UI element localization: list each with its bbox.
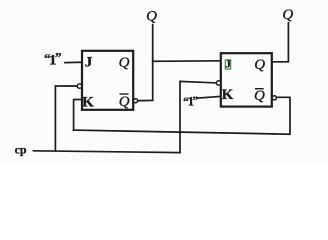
wire cp horizontal xyxy=(34,151,181,153)
svg-text:Q: Q xyxy=(254,57,265,73)
flip-flop U2 body xyxy=(221,53,272,106)
svg-text:J: J xyxy=(85,54,93,70)
svg-text:”: ” xyxy=(55,50,62,65)
svg-text:Q: Q xyxy=(254,88,265,104)
bubble U1 Qbar xyxy=(133,99,137,103)
wire K1 input riser xyxy=(74,100,82,131)
svg-text:cp: cp xyxy=(15,143,27,157)
svg-text:Q: Q xyxy=(146,9,157,25)
wire CP riser to U2 clock xyxy=(180,81,216,152)
bubble U1 clock xyxy=(77,84,81,88)
svg-text:K: K xyxy=(222,87,234,103)
overbar Qbar (U1) xyxy=(120,93,129,95)
svg-text:J: J xyxy=(225,59,231,71)
wire J1 input from "1" xyxy=(65,61,82,63)
wire CP to U1 clock xyxy=(55,86,77,151)
wire Q1bar to node Q and J2 xyxy=(138,25,153,101)
svg-text:Q: Q xyxy=(282,7,293,23)
svg-text:Q: Q xyxy=(119,94,130,110)
svg-text:K: K xyxy=(82,95,94,111)
wire feedback Q2bar to K1 xyxy=(74,97,290,134)
wire Q2 output to node Q xyxy=(272,23,289,62)
wire K2 input from "1" xyxy=(198,96,221,98)
bubble U2 Qbar xyxy=(272,96,276,100)
bubble U2 clock xyxy=(216,81,220,85)
wire J2 input xyxy=(153,60,221,63)
highlight box around J (U2) xyxy=(225,60,230,69)
svg-text:Q: Q xyxy=(119,55,130,71)
overbar Qbar (U2) xyxy=(255,88,264,90)
flip-flop U1 body xyxy=(82,51,133,110)
svg-text:”: ” xyxy=(193,95,199,107)
